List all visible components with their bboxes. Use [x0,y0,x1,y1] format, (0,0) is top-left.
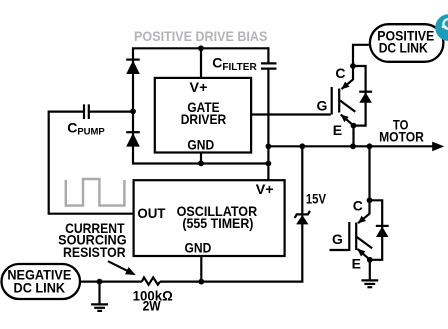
wire C_FILTER branch vertical upper [267,47,269,63]
svg-text:15V: 15V [306,190,327,206]
svg-text:GND: GND [185,240,212,256]
diode D2 lower charge-pump diode [126,132,140,146]
oscillator box U2 [134,180,285,256]
diode D4 upper freewheeling [353,66,372,126]
wire top bias rail + left diode branch + mid rail [133,48,268,163]
svg-text:RESISTOR: RESISTOR [63,244,126,260]
wire gate driver GND pin [200,153,202,164]
svg-text:POSITIVE DRIVE BIAS: POSITIVE DRIVE BIAS [134,28,267,44]
ground lower IGBT [361,260,378,287]
node bottom rail oscillator GND [198,279,204,285]
transistor Q1 upper IGBT [332,66,356,126]
wire lower collector from bus [368,146,370,200]
terminal POSITIVE DC LINK oval [370,24,444,62]
arrow label to resistor [108,261,127,271]
svg-text:E: E [352,256,361,272]
wire C_PUMP left segment [49,110,84,112]
arrow motor bus head [432,142,444,152]
zener diode D3 15V [295,211,310,225]
wire oscillator GND pin [200,256,202,282]
resistor R1 100k zigzag [142,277,160,284]
node C_PUMP to diode chain [130,108,136,114]
node mid rail C_FILTER [266,161,272,167]
wire positive dc link stub [353,45,369,66]
diode D1 upper charge-pump diode [126,60,140,74]
gate driver box U1 [155,78,251,153]
svg-text:G: G [317,97,328,113]
node bus C_FILTER [266,143,272,149]
node upper emitter [351,123,357,129]
svg-text:E: E [333,122,342,138]
svg-text:C: C [335,65,345,81]
diode D5 lower freewheeling [370,200,389,259]
wire motor bus [268,145,434,147]
node lower emitter [367,257,373,263]
svg-text:V+: V+ [190,79,208,95]
svg-text:(555 TIMER): (555 TIMER) [182,215,253,231]
node upper collector [350,63,356,69]
transistor Q2 lower IGBT [349,200,372,259]
node top wire / gate driver V+ [198,45,204,51]
wire zener branch and bottom rail right of resistor [160,146,302,281]
svg-text:V+: V+ [256,181,274,197]
node lower collector [367,197,373,203]
node bus lower collector [367,143,373,149]
node bottom rail ground tap [97,279,103,285]
svg-text:OUT: OUT [137,205,166,221]
node mid rail gate driver GND [198,160,204,166]
terminal NEGATIVE DC LINK oval [2,264,81,299]
svg-text:MOTOR: MOTOR [379,129,424,145]
svg-text:DC LINK: DC LINK [379,39,428,55]
svg-text:GND: GND [187,137,214,153]
wire gate lead upper IGBT [251,113,331,115]
square wave symbol [66,179,125,206]
capacitor C_PUMP plates [84,104,89,119]
wire C_FILTER branch vertical lower [267,69,269,181]
wire left loop to oscillator OUT [49,111,134,214]
wire C_PUMP right segment [89,110,133,112]
svg-text:C: C [353,198,363,214]
wire upper emitter to bus [352,126,354,147]
svg-text:G: G [332,231,343,247]
icon teal circle top right [435,14,448,41]
node bus upper emitter [350,143,356,149]
wire gate driver V+ pin [200,48,202,78]
wire bottom rail left of resistor [81,281,142,283]
ground negative rail [91,282,108,311]
node bus zener [299,143,305,149]
svg-text:2W: 2W [143,297,162,313]
svg-text:DRIVER: DRIVER [181,111,227,127]
capacitor C_FILTER plates [261,63,277,68]
wire gate stub lower IGBT [330,249,349,251]
svg-text:DC LINK: DC LINK [14,279,66,295]
